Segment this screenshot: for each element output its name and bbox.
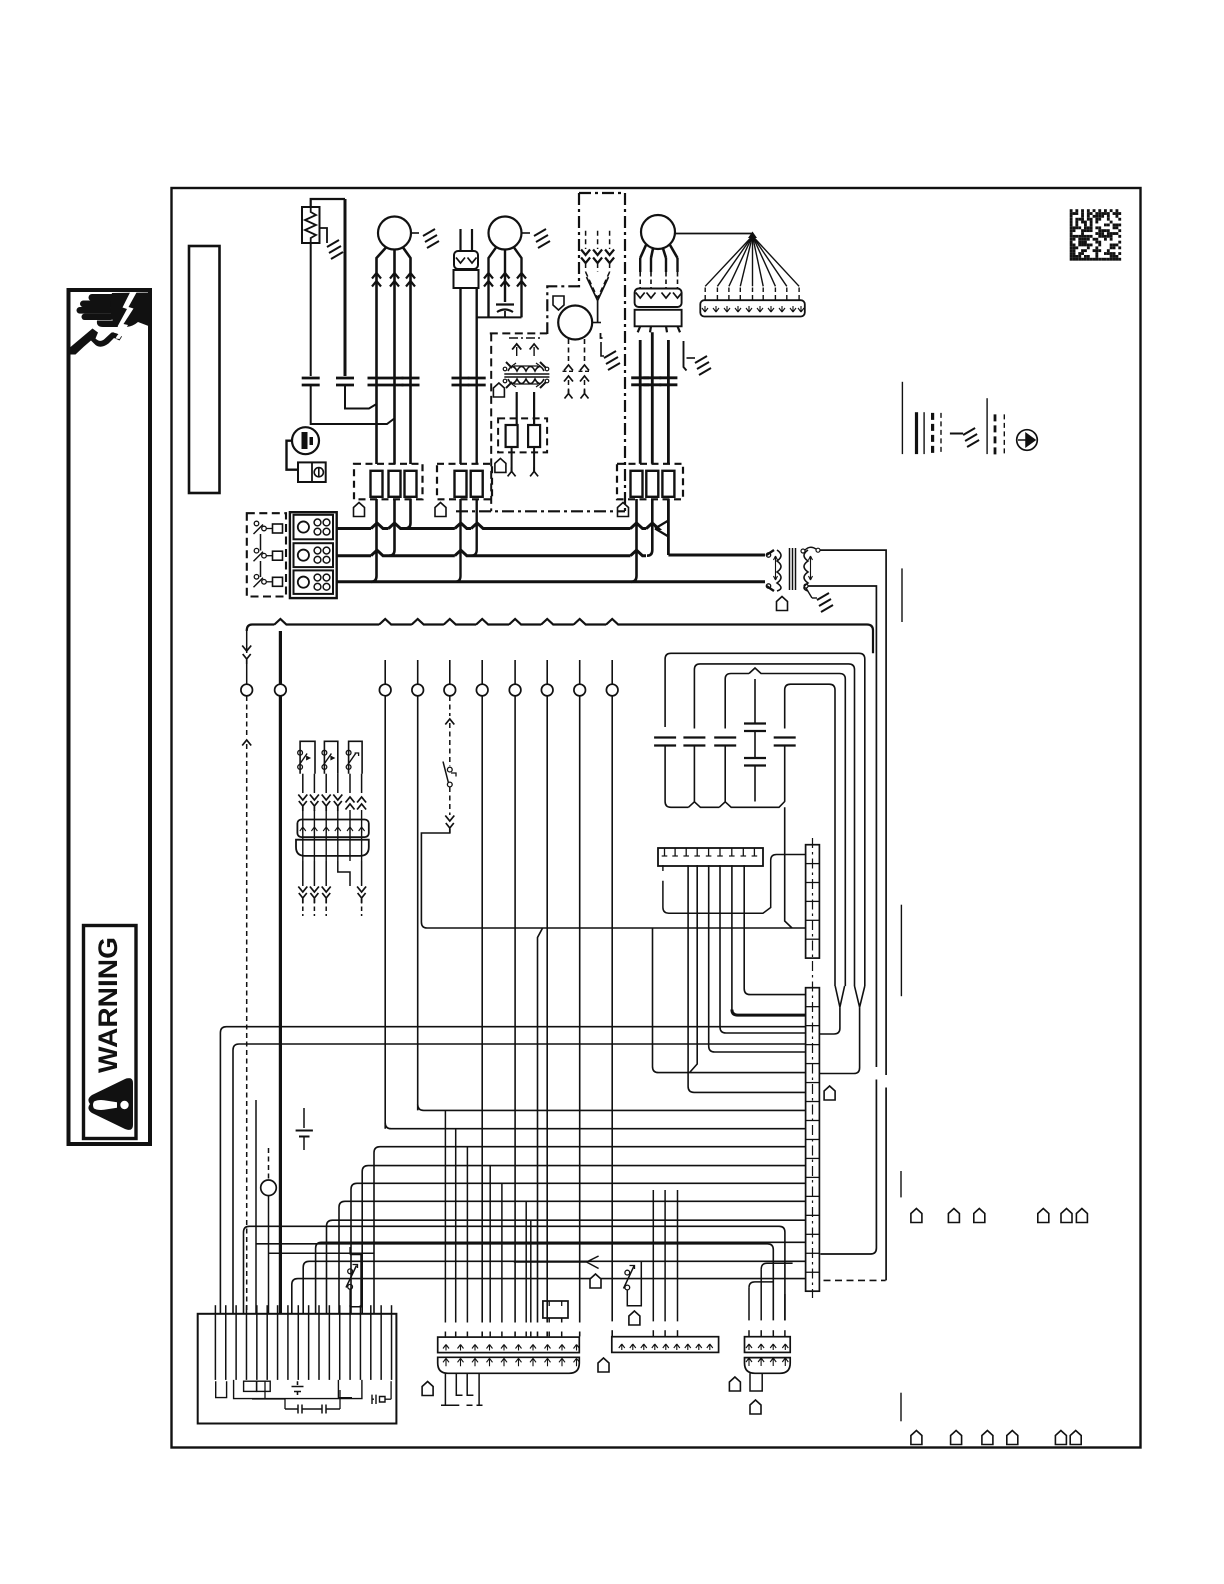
legend wire thin	[901, 382, 903, 454]
relay leads	[302, 774, 304, 793]
control box outline	[198, 1314, 397, 1424]
pentagon note (inducer, down)	[553, 296, 564, 310]
wire FB2-2 to bus row2	[471, 499, 477, 556]
pentagon note 7 (T1)	[777, 597, 788, 611]
wire feed x256	[255, 1100, 257, 1314]
connector chevrons M2 lead2	[501, 273, 510, 287]
pentagon note 6c (FB3)	[618, 503, 629, 517]
connector J1 lower	[454, 270, 479, 288]
wire J1 pin1 top	[459, 229, 461, 251]
terminal circle x579	[574, 684, 586, 696]
wire M4 lead dash	[650, 272, 652, 288]
terminal circle x385	[379, 684, 391, 696]
splice bars M1 lead1	[368, 378, 386, 385]
splice bars M1 lead2	[386, 378, 404, 385]
switch SW-M bracket	[350, 1255, 361, 1307]
terminal circle x482	[476, 684, 488, 696]
plug box symbol	[314, 468, 323, 477]
wire heater feed to motor bus	[345, 386, 377, 409]
pentagon note 9	[598, 1358, 609, 1372]
wire TS1 jog x697	[690, 865, 698, 1073]
run capacitor C-M2	[496, 305, 514, 313]
connector chevrons M2 lead1	[484, 273, 493, 287]
ground G3	[604, 351, 620, 370]
wire M1 lead3	[403, 248, 411, 465]
plug box divider	[311, 462, 313, 482]
wire h1226	[244, 1226, 785, 1320]
legend field-wire circle	[1017, 430, 1038, 451]
cap wires	[252, 1390, 340, 1409]
wire inducer plug lead	[609, 231, 611, 249]
wire inducer plug lead lower	[609, 263, 611, 272]
low-voltage bus	[247, 619, 873, 653]
fuse FB1-2	[389, 471, 401, 497]
fuse block FB3 outline	[617, 464, 683, 500]
wire FB1-3 to bus row1	[405, 499, 411, 529]
pushbutton bracket	[627, 1262, 641, 1306]
capacitor C755 series	[744, 724, 766, 766]
contactor pole block 3	[294, 570, 334, 594]
comb jumper rect 2	[257, 1381, 271, 1391]
strip D feeds	[748, 1288, 750, 1321]
terminal strip TS1 ticks	[664, 848, 666, 856]
disconnect interlock bar	[260, 534, 262, 551]
splice bars M4	[631, 378, 649, 385]
terminal circle x547	[541, 684, 553, 696]
relay harness Y ends	[298, 887, 307, 893]
wire column x385	[384, 696, 386, 1129]
Y end FBign-2	[530, 467, 538, 476]
legend ground	[963, 428, 979, 447]
wire fan y1146	[374, 1147, 806, 1314]
board connector upper	[806, 845, 820, 958]
splice bars M1 lead3	[402, 378, 420, 385]
motor M1 (compressor)	[378, 217, 411, 250]
strip A ticks	[443, 1345, 449, 1351]
resistor R-heater zigzag	[305, 207, 316, 243]
hand electric-shock warning icon	[71, 293, 149, 355]
wire funnel stem	[597, 301, 599, 323]
wire M4 lead dash	[677, 272, 679, 288]
switch SW-M	[348, 1269, 353, 1274]
ground G2	[423, 229, 439, 248]
ignition box bottom dash-dot	[456, 510, 625, 512]
wire SW2 jog	[421, 829, 449, 928]
wire heater top loop	[311, 199, 345, 207]
connector J5 strip	[700, 300, 805, 316]
wire fan y1052	[709, 865, 806, 1052]
wire inducer plug lead	[585, 231, 587, 249]
wire column x547	[546, 696, 548, 1323]
connector chevrons inducer	[581, 250, 590, 264]
strip A feed x530	[530, 1220, 532, 1322]
wire M4 lead solid	[676, 258, 678, 272]
terminal circle x417	[412, 684, 424, 696]
ground G3 lead	[601, 342, 604, 356]
strip A feed x501	[501, 1183, 503, 1322]
pentagon row1 x1037	[1038, 1209, 1049, 1223]
fuse FB3-3	[662, 471, 674, 497]
page border frame	[172, 188, 1141, 1448]
fuse FBign-2	[528, 425, 540, 447]
bus row L2	[337, 550, 646, 556]
splice chevrons M3	[580, 365, 589, 371]
wire fan y1044	[233, 1044, 806, 1314]
wire x886 down	[885, 624, 887, 1075]
TS1 stub left	[662, 865, 664, 871]
pentagon row1 x948	[948, 1209, 959, 1223]
plug box	[298, 462, 326, 482]
relay switch K3	[349, 741, 363, 773]
terminal circle x280	[275, 684, 287, 696]
wire inducer plug lead lower	[585, 263, 587, 272]
wire fan y1242	[316, 1242, 806, 1314]
wires J2-J3 through	[302, 810, 304, 861]
control box comb	[214, 1314, 216, 1380]
crystal lead	[385, 1398, 391, 1400]
strip E tails	[750, 1373, 762, 1391]
legend wire thick	[915, 412, 918, 454]
wires below J3	[302, 861, 304, 886]
wire column x482	[481, 696, 483, 1323]
wire M4 lead dash	[665, 272, 667, 288]
wire M3 lead2	[584, 339, 586, 362]
T1 secondary switch blade	[806, 588, 812, 598]
strip C ticks	[619, 1344, 625, 1350]
wire inducer plug lead	[597, 231, 599, 249]
connector chevrons inducer	[593, 250, 602, 264]
wire fan y1033	[720, 865, 806, 1033]
wire row1 joins FB3-3	[655, 521, 668, 537]
wire M3 right stub	[592, 322, 601, 324]
wire ignition arrow stems	[516, 347, 518, 356]
wire J1 lead2	[476, 288, 478, 464]
strip D feed stubs	[748, 1330, 750, 1337]
legend tick 2	[901, 568, 903, 622]
ignition arrow1	[512, 344, 521, 350]
wire M3 lead tail	[584, 380, 586, 393]
connector strip J3	[296, 840, 369, 856]
legend dashed thick2	[994, 414, 997, 456]
pentagon note 5b (ign fuse)	[495, 458, 506, 472]
pentagon note 6 (FB1)	[354, 503, 365, 517]
capacitor nest rails	[665, 653, 865, 986]
connector J4 arrows	[636, 293, 645, 299]
legend dashed thin3	[1003, 414, 1005, 456]
wire FB2-1 to bus row3	[455, 499, 461, 582]
control transformer T1	[766, 553, 770, 557]
wire T2 lead2	[533, 392, 535, 425]
pentagon note 6b (FB2)	[435, 503, 446, 517]
board connector lower	[806, 988, 820, 1291]
wire fan y1072	[653, 928, 806, 1073]
wire main cross h928	[427, 927, 806, 929]
motor M3 (inducer)	[558, 306, 592, 340]
capacitor C x694	[683, 738, 705, 746]
wire M4 to harness apex	[675, 233, 753, 235]
legend tick 4	[900, 1171, 902, 1197]
warning triangle icon	[88, 1078, 133, 1130]
pentagon row2 x1006	[1007, 1431, 1018, 1445]
Y end M3 lead	[565, 390, 573, 399]
connector chevrons M2 lead3	[517, 273, 526, 287]
wire M2 lead2	[504, 250, 506, 302]
pentagon row2 x1055	[1055, 1431, 1066, 1445]
ground G2b	[534, 229, 550, 248]
comb big U link	[234, 1380, 362, 1399]
relay switch K1	[300, 741, 315, 773]
splice bars J1 lead2	[468, 378, 486, 385]
wire indicator top	[268, 1148, 270, 1180]
wire M3 lead1	[568, 339, 570, 362]
legend wire thick dashed	[931, 413, 934, 454]
wire column x612	[611, 696, 613, 1321]
terminal circle row	[384, 660, 386, 684]
spark transformer T2	[508, 367, 544, 372]
strip C feeds	[652, 1190, 654, 1321]
splice bars J1 lead1	[452, 378, 470, 385]
terminal strip TS1	[658, 848, 763, 866]
wire FB3-2 to bus row2	[647, 499, 652, 556]
wire h1244	[256, 1244, 773, 1321]
wire M4 lead dash	[639, 272, 641, 288]
wire fan y1201	[339, 1201, 806, 1314]
wire fan y1128	[385, 1123, 805, 1129]
wire M4 lead solid	[639, 258, 641, 272]
connector J1 upper	[454, 251, 478, 269]
bus row L1	[337, 523, 659, 529]
inducer funnel dashed	[586, 272, 610, 298]
pentagon row2 x1070	[1070, 1431, 1081, 1445]
strip A feed x445	[444, 1110, 446, 1322]
fuse FB3-2	[646, 471, 658, 497]
pentagon note 12	[729, 1377, 740, 1391]
ground G2 lead	[411, 232, 419, 234]
pentagon row1 x973	[974, 1209, 985, 1223]
strip A feed x526	[525, 1201, 527, 1322]
contactor pole block 2	[294, 543, 334, 567]
rotated notes box	[189, 246, 220, 493]
pentagon note 10	[590, 1274, 601, 1288]
disconnect dashed box	[247, 513, 286, 596]
disconnect switch SW-D2	[254, 548, 259, 553]
wire M4 lead solid	[665, 258, 667, 272]
wire M4 lead fan	[640, 245, 677, 258]
bus feed to transformer	[668, 554, 765, 557]
warning sidebar box	[69, 290, 151, 1144]
wire FB1-2 to bus row2	[389, 499, 395, 556]
fuse FB2-2	[471, 471, 483, 497]
wire M3 lead tail	[568, 380, 570, 393]
strip D ticks	[746, 1344, 752, 1350]
pentagon note 5 (ign)	[493, 383, 504, 397]
indicator circle	[261, 1180, 277, 1196]
wire fan y1015 thick	[732, 1010, 806, 1016]
wire FB3-1 to bus row3	[631, 499, 637, 582]
connector J4 lower	[635, 310, 682, 327]
connector chevrons inducer	[605, 250, 614, 264]
bracket right of J4	[684, 341, 687, 371]
wire M4-1 (thick)	[639, 340, 642, 464]
crystal Y1	[372, 1395, 385, 1404]
wire T1 secondary bottom	[808, 586, 876, 928]
terminal circle x246	[241, 684, 253, 696]
fuse block FBign outline	[498, 418, 547, 452]
wire fan y1183	[351, 1183, 806, 1314]
plug P1 circle	[292, 427, 319, 454]
wire fan y1220	[327, 1220, 806, 1314]
wire below c280 (bold)	[279, 696, 282, 1314]
bus drop arrow+Y	[242, 646, 251, 652]
strip D feed corners	[749, 1282, 774, 1288]
svg-text:WARNING: WARNING	[93, 937, 123, 1073]
Y end M3 lead	[581, 390, 589, 399]
ground G2b lead	[522, 232, 531, 234]
wire fan y1261	[303, 1261, 805, 1314]
wire fan y1278	[292, 1279, 806, 1314]
legend ground lead	[950, 433, 963, 435]
strip B tails	[444, 1373, 446, 1405]
motor M2 (condenser)	[489, 217, 522, 250]
disconnect switch SW-D1	[254, 521, 259, 526]
ignition arrow2	[530, 344, 539, 350]
fuse block FB2 outline	[437, 464, 492, 500]
connector strip D	[745, 1337, 791, 1353]
capacitor C x784	[774, 738, 796, 746]
connector J1 arrows	[456, 258, 465, 264]
harness apex dot	[748, 232, 757, 239]
wire column x579	[579, 696, 581, 1323]
wire dashed h1280	[824, 1279, 886, 1281]
wire M1 lead1	[377, 248, 387, 465]
pentagon row1 x1076	[1076, 1209, 1087, 1223]
inducer funnel solid	[587, 277, 609, 301]
warning label box	[84, 926, 137, 1139]
wire FBign-1 lead	[511, 447, 513, 471]
cap legs	[693, 746, 695, 802]
ground G4 lead	[687, 357, 696, 359]
wire fan y1026	[220, 1027, 805, 1314]
pentagon row2 x950	[951, 1431, 962, 1445]
legend tick 3	[900, 905, 902, 997]
limit switch column top	[449, 696, 451, 716]
contactor block outer box	[290, 512, 337, 598]
wire M4 lead solid	[650, 258, 652, 272]
fuse FB1-3	[405, 471, 417, 497]
wire plug to box	[287, 441, 299, 470]
comb left hook	[216, 1381, 227, 1397]
bus row L3	[337, 580, 765, 583]
legend wire thin2	[923, 412, 925, 454]
wire C-M2 bottom lead	[504, 311, 506, 317]
ground G1 stub	[320, 228, 328, 243]
connector chevrons M1 lead3	[406, 273, 415, 287]
connector chevrons M1 lead1	[372, 273, 381, 287]
V-merge 1	[835, 986, 844, 1007]
capacitor C x665	[654, 738, 676, 746]
relay lead arrows	[298, 795, 307, 801]
legend wire thin dashed	[940, 413, 942, 454]
ground G4	[695, 356, 711, 375]
wire harness fan-out	[705, 236, 752, 286]
wire J3-4 jog	[338, 861, 350, 886]
connector strip J2 ticks	[300, 827, 306, 833]
relay switch K2	[324, 741, 337, 773]
fuse FB2-1	[455, 471, 467, 497]
legend tick 5	[900, 1393, 902, 1422]
series caps C-box2	[285, 1405, 340, 1414]
cap5 tail	[784, 746, 786, 802]
wire T2 lead1	[516, 392, 518, 425]
connector strip C	[612, 1337, 719, 1353]
connector strip J2	[297, 820, 368, 838]
fuse FB1-1	[371, 471, 383, 497]
fork split	[514, 1256, 599, 1269]
wire jog x537	[538, 928, 543, 1323]
strip A feed x467	[466, 1147, 468, 1323]
limit switch lower lead	[449, 787, 451, 815]
pentagon row2 x981	[982, 1431, 993, 1445]
pentagon row1 x1061	[1061, 1209, 1072, 1223]
ignition module dashed box	[490, 333, 547, 511]
contactor pole block 1	[294, 515, 334, 540]
pushbutton SW-P	[625, 1270, 630, 1275]
connector J4 stub ticks	[638, 326, 680, 332]
disconnect switch SW-D3	[254, 575, 259, 580]
wire fan y1015 vertical	[731, 865, 733, 1009]
pentagon note A (strips)	[422, 1382, 433, 1396]
terminal circle x449	[444, 684, 456, 696]
component box K9	[543, 1301, 568, 1318]
strip A feed x455	[455, 1129, 457, 1323]
wire M2 lead3	[514, 248, 522, 318]
pentagon row1 x910	[911, 1209, 922, 1223]
wire column x515	[514, 696, 516, 1323]
connector strip A	[438, 1337, 580, 1353]
wire fan y1110	[418, 1104, 806, 1110]
wire M4-2 (thick)	[651, 332, 654, 464]
wire M1 lead2	[393, 250, 396, 464]
wire column x417	[417, 696, 419, 1110]
inducer dash-dot box	[547, 193, 625, 511]
wire h913	[663, 855, 806, 914]
terminal circle x612	[606, 684, 618, 696]
wire J1 lead1	[459, 288, 461, 464]
pentagon note 13	[750, 1400, 761, 1414]
capacitor bottom bus	[665, 746, 785, 808]
wire fan y994	[744, 865, 805, 995]
pentagon row2 x910	[911, 1431, 922, 1445]
wire below c246 dashed	[246, 696, 248, 735]
legend wire thin3	[986, 398, 988, 454]
ground G5	[817, 593, 833, 612]
splice bars M4	[643, 378, 661, 385]
wire heater feed (thick)	[344, 199, 347, 376]
splice S2 (cap bars)	[336, 378, 354, 385]
comb right U link	[338, 1380, 352, 1398]
connector strip E	[745, 1358, 791, 1374]
wire M2 collector	[477, 316, 522, 318]
wire M2 lead1	[489, 248, 497, 318]
Y end FBign-1	[508, 467, 516, 476]
wire h1253	[269, 1252, 375, 1254]
splice bars M4	[659, 378, 677, 385]
wire fan y1092	[688, 865, 806, 1092]
wire fan y1165	[362, 1166, 805, 1314]
plug P1 blade	[302, 432, 308, 449]
cap C-box1	[292, 1381, 304, 1395]
connector J4 upper	[635, 289, 682, 308]
